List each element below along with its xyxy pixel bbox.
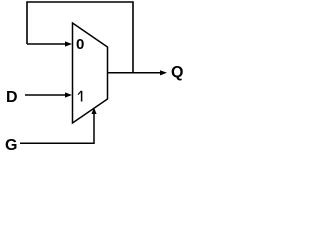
mux U1 (2-to-1 multiplexer trapezoid) [73, 23, 108, 123]
wire D to input 1 [25, 94, 66, 96]
wire input 0 [27, 43, 66, 45]
arrowhead input 1 [65, 92, 72, 97]
arrowhead output Q [160, 70, 167, 75]
arrowhead select G [91, 108, 96, 115]
svg-text:0: 0 [76, 36, 84, 53]
svg-text:Q: Q [171, 64, 183, 81]
svg-text:D: D [6, 89, 18, 106]
wire feedback loop Q to input 0 [27, 2, 133, 73]
pin label 1 [78, 91, 82, 102]
wire G select [20, 113, 94, 143]
svg-text:G: G [5, 137, 17, 154]
arrowhead input 0 [65, 41, 72, 46]
wire output Q [108, 72, 161, 74]
